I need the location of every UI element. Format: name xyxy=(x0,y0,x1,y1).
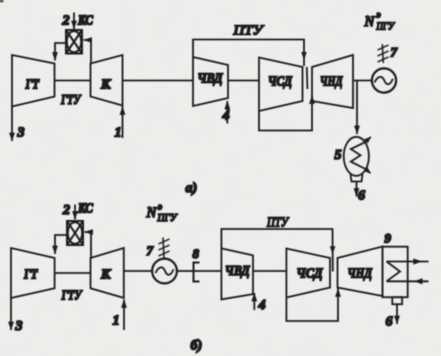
gas pipe KC to GT (b) xyxy=(55,235,67,254)
condensate arrow 6 (b) xyxy=(396,305,398,325)
svg-text:К: К xyxy=(100,268,112,283)
condensate arrow 6 (a) xyxy=(356,182,358,197)
svg-text:ПГУ: ПГУ xyxy=(376,22,396,33)
feed arrow 4 (a) xyxy=(226,101,228,124)
svg-text:2: 2 xyxy=(62,203,70,218)
electrical output symbol (a) xyxy=(378,44,389,63)
air pipe K to KC (b) xyxy=(85,232,92,258)
generator G (a) xyxy=(372,68,396,92)
svg-text:КС: КС xyxy=(77,201,94,216)
gas pipe KC to GT (a) xyxy=(55,43,66,61)
combustion chamber KC (b) xyxy=(67,221,83,245)
crossover loop ChSD to ChND (a) xyxy=(259,96,312,131)
svg-text:ЧВД: ЧВД xyxy=(225,263,250,278)
feed arrow 4 (b) xyxy=(253,293,255,310)
PTU bracket (b) xyxy=(221,229,332,272)
return water in arrow (b) xyxy=(387,280,429,282)
svg-text:1: 1 xyxy=(113,314,120,329)
svg-text:э: э xyxy=(158,203,162,213)
hot water out arrow (b) xyxy=(387,261,429,263)
scan artifact: top-left corner mark xyxy=(0,0,4,3)
electrical output symbol (b) xyxy=(159,238,170,259)
combustion chamber KC (a) box with circle and X xyxy=(66,30,82,54)
svg-text:4: 4 xyxy=(258,298,266,313)
PTU bracket (a) xyxy=(193,40,304,67)
air pipe K to KC (a) xyxy=(84,40,92,63)
steam to condenser line (a) xyxy=(356,81,358,135)
svg-text:N: N xyxy=(146,205,158,221)
fuel arrow 2 (b) xyxy=(74,205,76,220)
shaft generator-clutch (b) xyxy=(177,270,193,272)
svg-text:ЧНД: ЧНД xyxy=(320,74,343,89)
IP cylinder ChSD (a) xyxy=(259,58,303,112)
svg-text:7: 7 xyxy=(391,45,398,60)
svg-text:5: 5 xyxy=(335,148,342,163)
exhaust arrow 3 (a) xyxy=(11,107,13,142)
air inlet arrow 1 (a) xyxy=(122,107,124,139)
svg-text:ГТ: ГТ xyxy=(23,268,38,283)
svg-text:б): б) xyxy=(191,339,203,354)
shaft ChVD-ChSD (b) xyxy=(253,270,286,272)
svg-text:ГТ: ГТ xyxy=(25,78,40,93)
svg-text:8: 8 xyxy=(193,246,200,261)
shaft ChVD-ChSD (a) xyxy=(228,80,259,82)
label N PGU (b) xyxy=(146,203,179,225)
air inlet arrow 1 (b) xyxy=(123,300,125,331)
compressor K (b) xyxy=(91,248,124,298)
clutch 8 (b) xyxy=(194,263,200,282)
svg-text:а): а) xyxy=(186,181,198,196)
svg-text:ЧНД: ЧНД xyxy=(348,266,373,281)
svg-text:К: К xyxy=(100,78,112,93)
svg-text:9: 9 xyxy=(385,231,392,246)
shaft GT-K (a) xyxy=(55,80,91,82)
shaft K-generator (b) xyxy=(124,270,152,272)
sigma coil inside 9 xyxy=(387,262,401,282)
cooling water out arrow (a) xyxy=(365,137,371,143)
shaft GT-K (b) xyxy=(55,272,91,274)
condenser neck (a) xyxy=(351,175,363,182)
svg-text:ПТУ: ПТУ xyxy=(232,24,264,39)
svg-text:1: 1 xyxy=(115,126,122,141)
neck of 9 (b) xyxy=(392,297,402,304)
svg-text:ГТУ: ГТУ xyxy=(60,93,82,108)
condenser 5 (a) xyxy=(344,137,369,176)
LP cylinder ChND (b) xyxy=(338,247,383,297)
svg-text:6: 6 xyxy=(386,315,393,330)
svg-text:3: 3 xyxy=(17,126,25,141)
crossover loop ChSD to ChND (b) xyxy=(286,289,338,322)
svg-text:ЧСД: ЧСД xyxy=(297,266,324,281)
LP cylinder ChND (a) xyxy=(312,55,353,108)
compressor K (a) xyxy=(91,55,123,106)
gas turbine GT (b) xyxy=(11,248,55,298)
exhaust arrow 3 (b) xyxy=(10,298,12,330)
fuel arrow 2 into KC (a) xyxy=(73,13,75,30)
label N PGU (a) xyxy=(364,11,396,33)
cooling water in arrow (a) xyxy=(366,169,371,173)
svg-text:КС: КС xyxy=(77,13,94,28)
svg-text:4: 4 xyxy=(222,109,230,124)
svg-text:ЧВД: ЧВД xyxy=(198,71,224,86)
svg-text:ПТУ: ПТУ xyxy=(266,215,289,230)
svg-text:7: 7 xyxy=(147,243,154,258)
svg-text:3: 3 xyxy=(15,319,23,334)
svg-text:ЧСД: ЧСД xyxy=(268,74,293,89)
shaft clutch-ChVD (b) xyxy=(194,270,222,272)
svg-text:2: 2 xyxy=(62,14,70,29)
generator G (b) xyxy=(152,259,177,284)
shaft K-ChVD (a) xyxy=(123,80,194,82)
HP cylinder ChVD (a) xyxy=(193,57,228,106)
svg-text:э: э xyxy=(377,11,381,21)
svg-text:ПГУ: ПГУ xyxy=(157,213,179,224)
gas turbine GT (a) xyxy=(12,55,55,107)
shaft ChND-generator (a) xyxy=(353,80,372,82)
svg-text:ГТУ: ГТУ xyxy=(61,289,83,304)
IP cylinder ChSD (b) xyxy=(286,249,330,298)
svg-text:N: N xyxy=(364,14,376,30)
svg-text:6: 6 xyxy=(358,189,365,204)
heat exchanger 9 (b) xyxy=(383,247,408,298)
HP cylinder ChVD (b) xyxy=(221,248,253,299)
